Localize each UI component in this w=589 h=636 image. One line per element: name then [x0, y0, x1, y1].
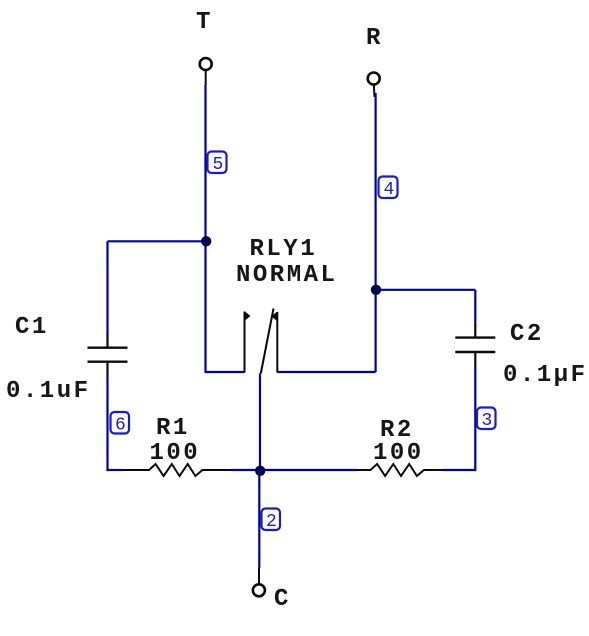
wire C2 lower vertical [474, 368, 476, 472]
port T pin stub [205, 71, 207, 85]
junction J2 (R / C2 / relay) [371, 285, 381, 295]
wire blade to J3 vertical [259, 374, 261, 471]
wire C1 upper vertical [106, 241, 108, 334]
svg-text:R1: R1 [156, 415, 190, 442]
wire C1 lower vertical [106, 376, 108, 471]
svg-text:0.1uF: 0.1uF [6, 378, 91, 405]
wire relay left horizontal [206, 371, 245, 373]
svg-text:3: 3 [482, 411, 493, 431]
port T terminal circle [200, 58, 212, 70]
svg-text:NORMAL: NORMAL [236, 262, 337, 289]
port C terminal circle [253, 584, 265, 596]
wire R vertical to relay [375, 93, 377, 372]
junction J1 (T / C1 / relay) [201, 236, 211, 246]
pin number 6 [111, 412, 130, 436]
svg-text:2: 2 [266, 512, 277, 532]
wire J2 to C2 horizontal [376, 289, 475, 291]
svg-text:C2: C2 [510, 321, 544, 348]
svg-text:T: T [196, 9, 213, 36]
port R terminal circle [368, 73, 380, 85]
svg-text:C1: C1 [15, 314, 49, 341]
wire C2 upper vertical [474, 290, 476, 326]
relay RLY1 movable blade [261, 309, 274, 374]
capacitor C1 [88, 334, 128, 377]
port C pin stub [258, 568, 260, 585]
svg-text:RLY1: RLY1 [250, 236, 318, 263]
wire C1 to R1 [108, 469, 124, 471]
resistor R2 [358, 464, 443, 476]
relay RLY1 right fixed contact [271, 312, 277, 373]
wire T vertical to relay [204, 85, 206, 373]
wire J3 to C port [258, 471, 260, 569]
wire J1 to C1 horizontal [108, 240, 206, 242]
svg-text:100: 100 [150, 440, 201, 467]
svg-text:C: C [274, 586, 291, 613]
relay RLY1 left fixed contact [245, 311, 251, 372]
svg-text:4: 4 [384, 180, 395, 200]
pin number 4 [379, 177, 398, 201]
port R pin stub [373, 85, 376, 97]
resistor R1 [123, 464, 232, 476]
junction J3 (R1 / R2 / C) [255, 466, 265, 476]
capacitor C2 [455, 325, 495, 368]
wire relay right horizontal [277, 371, 375, 373]
svg-text:5: 5 [213, 155, 224, 175]
svg-text:R: R [366, 25, 383, 52]
wire J3 to R2 [260, 469, 358, 471]
svg-text:100: 100 [373, 440, 424, 467]
pin number 5 [208, 152, 227, 176]
svg-text:6: 6 [115, 416, 126, 436]
pin number 3 [477, 408, 496, 432]
wire R1 to J3 [232, 469, 261, 471]
wire C2 to R2 [443, 469, 476, 471]
pin number 2 [262, 509, 281, 533]
svg-text:0.1µF: 0.1µF [503, 362, 588, 389]
